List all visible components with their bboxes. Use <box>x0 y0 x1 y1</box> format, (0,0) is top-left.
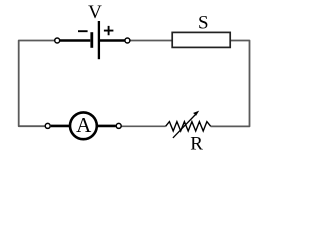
rheostat R: zigzag element <box>166 122 211 131</box>
terminal (battery right) <box>125 38 130 43</box>
svg-text:R: R <box>190 133 203 154</box>
wire: ammeter right terminal to rheostat <box>122 125 166 127</box>
rheostat R: wiper arrowhead <box>193 111 199 116</box>
battery V: left lead <box>60 39 91 42</box>
svg-text:S: S <box>198 12 209 33</box>
wire: box S right side, down right edge, along bottom to rheostat <box>211 41 250 127</box>
wire: battery right terminal to resistance box S <box>130 40 172 42</box>
rheostat R: wiper arrow shaft <box>173 114 196 138</box>
battery V: right lead <box>100 39 125 42</box>
terminal (ammeter left) <box>45 123 50 128</box>
battery V: short negative plate <box>90 32 93 48</box>
terminal (battery left) <box>55 38 60 43</box>
svg-text:A: A <box>76 113 92 137</box>
battery V: long positive plate <box>98 21 100 59</box>
svg-text:V: V <box>88 2 102 23</box>
label plus <box>104 26 114 35</box>
terminal (ammeter right) <box>116 123 121 128</box>
wire: left side loop (top-left from battery terminal, down left edge, along bottom to ammeter terminal) <box>19 41 55 127</box>
ammeter A: right lead <box>97 125 116 128</box>
resistance box S <box>172 32 230 47</box>
ammeter A: left lead <box>51 125 71 128</box>
label minus <box>78 30 88 32</box>
ammeter A: body circle <box>70 112 97 139</box>
